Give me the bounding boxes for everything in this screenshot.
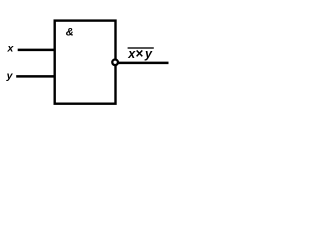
svg-text:&: & bbox=[66, 27, 74, 39]
svg-text:×: × bbox=[135, 46, 143, 61]
wire output bbox=[116, 62, 169, 65]
svg-text:y: y bbox=[144, 47, 153, 61]
wire input x bbox=[18, 49, 56, 52]
svg-text:x: x bbox=[7, 43, 15, 55]
NAND gate body U1 (IEC rectangle) bbox=[55, 21, 116, 104]
net label x×y with overline bbox=[127, 46, 154, 61]
inversion bubble bbox=[112, 60, 118, 66]
wire input y bbox=[16, 75, 55, 78]
svg-text:y: y bbox=[6, 70, 14, 82]
